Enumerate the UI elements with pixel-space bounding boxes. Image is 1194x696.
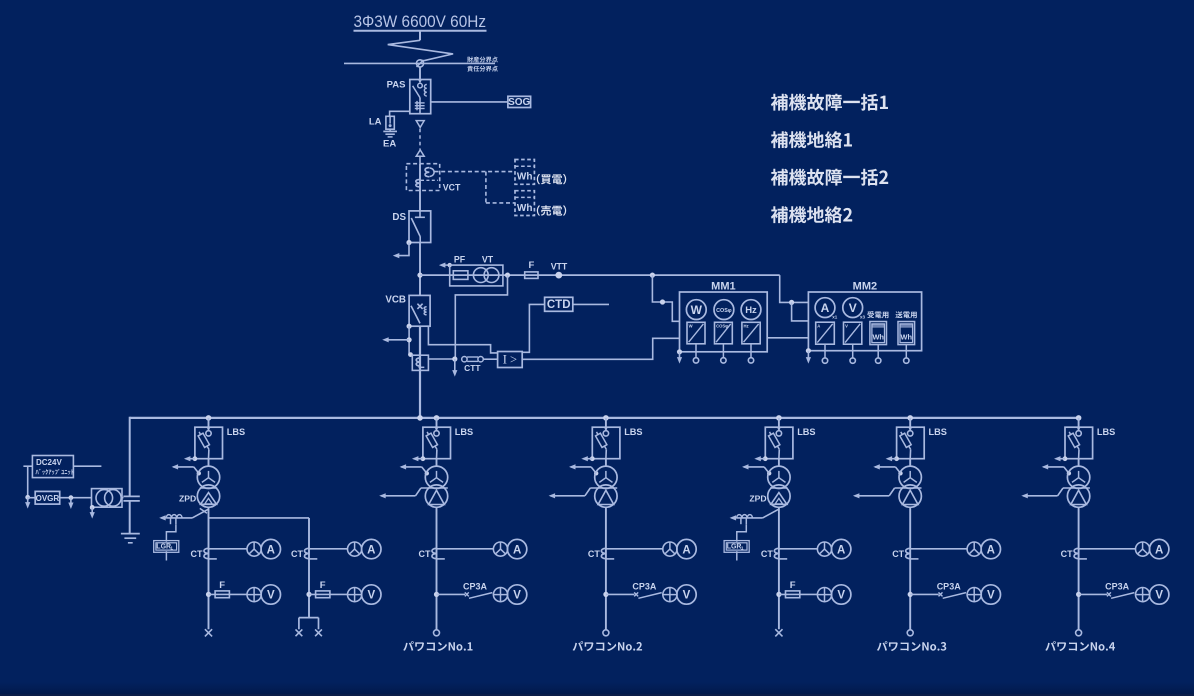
arrow CT earth <box>452 359 457 377</box>
svg-text:LA: LA <box>369 116 382 127</box>
cable head up triangle <box>416 150 424 156</box>
fuse F feeder 4 <box>779 591 818 598</box>
demarcation point circle <box>416 60 423 67</box>
wire feeder drop feeder 3 <box>605 507 607 630</box>
breaker CP3A feeder 5 <box>910 592 966 598</box>
node bus main feed <box>417 415 423 421</box>
meter A <box>815 298 838 320</box>
node bus feeder 6 <box>1076 415 1082 421</box>
wire VCB left drop <box>408 326 410 354</box>
cable head down triangle <box>416 121 424 128</box>
svg-text:CP3A: CP3A <box>937 582 962 592</box>
arrow LBS corner feeder 4 <box>754 456 767 461</box>
switch ammeter selector feeder 6 <box>1136 542 1150 556</box>
meter Hz <box>741 300 761 320</box>
svg-text:A: A <box>267 544 275 556</box>
svg-text:I >: I > <box>503 353 517 367</box>
wire OVGR to aux transformer <box>60 497 92 499</box>
arrow transformer primary feeder 2 <box>400 464 429 475</box>
switch ammeter selector feeder 4 <box>817 542 831 556</box>
wire bus to LBS feeder 4 <box>778 418 780 430</box>
switch voltmeter selector feeder 2 <box>493 588 507 602</box>
switch LBS feeder 4 <box>765 427 793 459</box>
meter V feeder 3 <box>677 585 696 604</box>
connection x mark branch right <box>315 629 322 636</box>
connection x mark feeder 1 <box>205 629 212 636</box>
incoming line zigzag break <box>388 40 453 61</box>
svg-text:MM2: MM2 <box>853 281 877 293</box>
node aux transformer input <box>69 495 74 500</box>
label sodenyou <box>895 311 916 318</box>
label zaisan bunkaiten <box>467 57 498 63</box>
node main CT box corner <box>408 352 413 357</box>
wire MM2 second lead <box>792 302 809 321</box>
svg-text:OVGR: OVGR <box>36 494 60 503</box>
wire LGR stub feeder 1 <box>165 551 167 560</box>
arrow aux earth 2 <box>68 498 73 509</box>
zero phase coil feeder 4 <box>737 515 753 525</box>
disconnect switch DS <box>409 211 431 243</box>
relay LGR1 feeder 1 <box>154 541 179 553</box>
wire LBS to transformer feeder 4 <box>778 459 780 467</box>
meter A feeder 3 <box>677 539 696 558</box>
label hoki koshou ikkatsu 2 <box>771 169 888 186</box>
wire CT to CTT <box>428 358 454 360</box>
svg-text:V: V <box>267 590 275 602</box>
wire ZPD tap to branch feeder 1 <box>209 517 310 519</box>
terminal MM2 Wh1 <box>876 358 881 363</box>
delta symbol feeder 6 <box>1071 490 1087 504</box>
svg-text:CP3A: CP3A <box>463 582 488 592</box>
transformer feeder 6 delta winding <box>1067 485 1089 507</box>
wire DC24V right <box>73 465 101 467</box>
svg-text:A: A <box>367 544 375 556</box>
terminal powcon feeder 2 <box>434 630 440 636</box>
wire transformer tap arrow feeder 3 <box>549 488 618 498</box>
meter A feeder 2 <box>507 539 526 558</box>
svg-text:Hz: Hz <box>744 324 749 329</box>
svg-text:A: A <box>1155 544 1163 556</box>
label powcon No.3 <box>877 641 946 651</box>
wire DS aux arrow <box>393 243 409 259</box>
transformer feeder 2 wye winding <box>425 466 447 488</box>
arrow transformer primary feeder 5 <box>873 464 902 475</box>
dashed lead VCT to Wh meters <box>435 172 516 203</box>
svg-text:CT: CT <box>892 549 904 559</box>
meter V <box>843 298 866 320</box>
transformer feeder 2 delta winding <box>425 485 447 507</box>
arrow transformer primary feeder 1 <box>172 464 201 475</box>
node DS bottom corner <box>406 240 411 245</box>
switch voltmeter selector feeder 1 <box>247 588 261 602</box>
node VT output <box>505 273 510 278</box>
terminal powcon feeder 5 <box>907 630 913 636</box>
svg-text:V: V <box>1155 590 1163 602</box>
arrow MM2 earth <box>806 351 811 364</box>
zero phase coil feeder 1 <box>166 515 182 525</box>
current transformer feeder 4 <box>774 548 779 558</box>
node VCB bottom corner <box>407 324 412 329</box>
current transformer feeder 3 <box>601 548 606 558</box>
switch LBS feeder 3 <box>592 427 620 459</box>
wire VCB to bus <box>419 326 421 418</box>
relay LGR1 feeder 4 <box>724 541 749 553</box>
wire CT to ammeter feeder 5 <box>910 548 967 550</box>
svg-text:1: 1 <box>741 546 744 551</box>
wire feeder 1 branch drop <box>308 518 310 618</box>
svg-text:Wh: Wh <box>517 203 533 214</box>
meter A feeder 1 <box>261 539 280 558</box>
label powcon No.1 <box>403 641 472 651</box>
svg-text:V: V <box>513 590 521 602</box>
node bus feeder 1 <box>206 415 212 421</box>
svg-text:COSφ: COSφ <box>716 308 732 314</box>
wire bus to LBS feeder 5 <box>909 418 911 430</box>
transformer feeder 4 delta winding <box>768 485 790 507</box>
wire VCB aux arrow <box>382 337 409 342</box>
arrow transformer primary feeder 3 <box>569 464 598 475</box>
wire ZPD tap diagonal feeder 1 <box>192 509 208 518</box>
wire transformer tap arrow feeder 6 <box>1021 488 1090 498</box>
fuse F <box>525 272 538 279</box>
svg-text:CT: CT <box>291 549 303 559</box>
wire bus to LBS feeder 3 <box>605 418 607 430</box>
terminal MM1 COSphi <box>721 358 726 363</box>
svg-text:A: A <box>821 301 830 315</box>
title 3phase 3wire 6600V 60Hz <box>354 13 487 31</box>
transducer A <box>816 322 835 344</box>
current transformer CT main <box>412 355 428 370</box>
relay SOG <box>508 96 531 108</box>
label hoki chiraku 2 <box>771 206 852 223</box>
meter A feeder 4 <box>832 539 851 558</box>
meter Wh receive <box>870 322 887 345</box>
arrow LBS corner feeder 5 <box>886 456 899 461</box>
svg-text:LBS: LBS <box>227 427 245 437</box>
wire relay to MM1 <box>522 338 679 359</box>
arrow LBS corner feeder 3 <box>581 456 594 461</box>
wire VTT to MM2 <box>780 275 809 302</box>
label hoki chiraku 1 <box>771 131 852 148</box>
transducer W <box>687 322 705 344</box>
terminal powcon feeder 6 <box>1076 630 1082 636</box>
VCT CT winding symbol <box>416 179 420 187</box>
wire to PAS <box>419 67 421 80</box>
switch ammeter selector feeder 3 <box>663 542 677 556</box>
wire coil to LGR feeder 1 <box>166 524 176 542</box>
wire selector to voltmeter feeder 3 <box>676 594 678 596</box>
wire VCB to overcurrent relay <box>428 326 497 353</box>
node bus feeder 4 <box>776 415 782 421</box>
switch ammeter selector feeder 2 <box>493 542 507 556</box>
wire CT to ammeter feeder 3 <box>606 548 663 550</box>
wire bus to LBS feeder 2 <box>436 418 438 430</box>
transformer feeder 4 wye winding <box>768 466 790 488</box>
current transformer branch <box>304 548 309 558</box>
svg-text:A: A <box>987 544 995 556</box>
arrow at PF VT box <box>439 263 452 268</box>
wire branch CT to ammeter <box>309 548 348 550</box>
svg-text:LGR: LGR <box>727 544 742 551</box>
wire VT output to relay CT line <box>455 275 507 359</box>
svg-text:CT: CT <box>588 549 600 559</box>
wire selector to voltmeter feeder 6 <box>1149 594 1151 596</box>
connection x mark branch left <box>296 629 303 636</box>
wire node to OVGR <box>28 497 36 499</box>
current transformer feeder 2 <box>432 548 437 558</box>
svg-text:x1: x1 <box>832 315 838 320</box>
meter A feeder 6 <box>1150 539 1169 558</box>
wire VTT to MM1 <box>652 275 679 321</box>
svg-text:CP3A: CP3A <box>1105 582 1130 592</box>
arrow aux earth 3 <box>90 507 95 518</box>
svg-text:LBS: LBS <box>1097 427 1115 437</box>
svg-text:PF: PF <box>454 254 466 264</box>
meter Wh sale dashed box <box>515 191 534 216</box>
terminal MM2 Wh2 <box>904 358 909 363</box>
svg-text:CT: CT <box>419 549 431 559</box>
svg-text:V: V <box>367 590 375 602</box>
breaker CP3A feeder 2 <box>437 592 493 598</box>
meter COSphi <box>714 300 734 320</box>
VCT VT winding symbol <box>425 168 429 177</box>
svg-text:Wh: Wh <box>901 333 913 342</box>
switch blade ZPD tap feeder 1 <box>200 508 207 513</box>
delta symbol feeder 2 <box>429 490 445 504</box>
svg-text:VTT: VTT <box>551 261 568 271</box>
arrow MM1 earth <box>677 352 682 364</box>
meter V feeder 4 <box>832 585 851 604</box>
wire PAS to LA <box>390 111 410 116</box>
node MM1 corner <box>677 349 682 354</box>
transducer Hz <box>742 322 760 344</box>
svg-text:CT: CT <box>191 549 203 559</box>
svg-text:CTD: CTD <box>547 299 571 311</box>
wire feeder drop feeder 5 <box>909 507 911 630</box>
transformer aux in box <box>92 489 123 508</box>
wire ZPD tap diagonal feeder 4 <box>762 509 778 518</box>
current transformer feeder 5 <box>906 548 911 558</box>
relay I> overcurrent <box>498 352 523 368</box>
svg-text:W: W <box>689 324 693 329</box>
node main line PF tap <box>417 273 422 278</box>
wire feeder drop feeder 6 <box>1078 507 1080 630</box>
wire PAS to SOG <box>431 101 508 103</box>
svg-text:CP3A: CP3A <box>632 582 657 592</box>
test terminal CTT <box>462 357 498 362</box>
wire selector to voltmeter feeder 5 <box>980 594 982 596</box>
node MM2 corner <box>806 348 811 353</box>
svg-text:LBS: LBS <box>929 427 947 437</box>
wire feeder drop feeder 4 <box>778 507 780 629</box>
svg-text:LGR: LGR <box>156 544 171 551</box>
label kaiden <box>537 174 566 185</box>
node bus feeder 2 <box>434 415 440 421</box>
wire CT to ammeter feeder 2 <box>437 548 494 550</box>
fuse F branch <box>309 591 348 598</box>
svg-text:3Φ3W 6600V 60Hz: 3Φ3W 6600V 60Hz <box>354 13 487 31</box>
power supply DC24V backup unit <box>32 456 73 478</box>
svg-text:Wh: Wh <box>872 333 884 342</box>
wire to VCT <box>419 156 421 163</box>
svg-text:1: 1 <box>170 546 173 551</box>
breaker VCB <box>409 295 430 326</box>
switch LBS feeder 5 <box>897 427 925 459</box>
meter transformer VCT dashed box <box>406 164 439 191</box>
node MM2 feed <box>789 300 794 305</box>
ground EA <box>383 129 397 137</box>
svg-text:VCB: VCB <box>385 294 406 305</box>
svg-text:A: A <box>837 544 845 556</box>
wire CTD output <box>573 303 609 305</box>
svg-text:F: F <box>528 260 534 271</box>
wire ZPD tap feeder 4 <box>737 517 763 519</box>
wire transformer chord feeder 1 <box>200 487 217 489</box>
wire branch fork <box>299 618 319 630</box>
svg-text:F: F <box>219 580 225 591</box>
capacitor aux <box>123 496 139 501</box>
wire relay to CTD <box>522 304 544 352</box>
svg-text:V: V <box>683 590 691 602</box>
svg-text:A: A <box>817 323 820 328</box>
wire through VCT <box>419 164 421 211</box>
delta symbol with ZPD feeder 1 <box>201 493 217 505</box>
node voltmeter tap feeder 4 <box>776 592 781 597</box>
svg-text:VT: VT <box>482 254 494 264</box>
switch LBS feeder 1 <box>195 427 223 459</box>
svg-text:A: A <box>513 544 521 556</box>
wire LBS to transformer feeder 3 <box>605 459 607 467</box>
MM2 terminal leads <box>825 344 906 358</box>
svg-text:V: V <box>845 323 848 328</box>
node bus feeder 5 <box>907 415 913 421</box>
fuse F feeder 1 <box>209 591 248 598</box>
node branch voltmeter tap <box>306 592 311 597</box>
meter V branch <box>362 585 381 604</box>
meter V feeder 2 <box>507 585 526 604</box>
svg-text:V: V <box>987 590 995 602</box>
transformer feeder 1 delta winding <box>197 485 219 507</box>
breaker CP3A feeder 3 <box>606 592 662 598</box>
meter A branch <box>362 539 381 558</box>
ground aux <box>121 534 140 543</box>
node voltmeter tap feeder 1 <box>206 592 211 597</box>
transducer COSphi <box>715 322 733 344</box>
svg-text:Wh: Wh <box>517 172 533 183</box>
wire DC24V left stub <box>23 466 32 497</box>
wire capacitor to ground <box>129 501 131 534</box>
svg-text:CT: CT <box>761 549 773 559</box>
label backup unit katakana <box>36 469 74 475</box>
meter panel MM1 <box>680 292 768 352</box>
switch voltmeter selector feeder 5 <box>967 588 981 602</box>
arrow OVGR input earth <box>25 497 30 508</box>
svg-text:CTT: CTT <box>464 363 481 373</box>
wire transformer tap arrow feeder 2 <box>379 488 448 498</box>
wire bus to LBS feeder 1 <box>208 418 210 430</box>
wire DS to VCB <box>419 243 421 296</box>
wire CT to ammeter feeder 1 <box>209 548 248 550</box>
breaker CP3A feeder 6 <box>1079 592 1135 598</box>
terminal powcon feeder 3 <box>603 630 609 636</box>
switch LBS feeder 6 <box>1065 427 1093 459</box>
node voltmeter tap feeder 6 <box>1076 592 1081 597</box>
transformer feeder 3 wye winding <box>595 466 617 488</box>
svg-text:W: W <box>691 303 703 317</box>
meter Wh purchase dashed box <box>515 160 534 185</box>
delta symbol feeder 3 <box>598 490 614 504</box>
arrester LA <box>386 116 394 129</box>
svg-text:A: A <box>682 544 690 556</box>
transformer feeder 5 wye winding <box>899 466 921 488</box>
transformer feeder 1 wye winding <box>197 466 219 488</box>
svg-text:V: V <box>849 301 857 315</box>
svg-text:LBS: LBS <box>624 427 642 437</box>
wire CT to ammeter feeder 6 <box>1079 548 1136 550</box>
switch branch ammeter selector <box>348 542 362 556</box>
wire from title to zigzag <box>419 31 421 41</box>
svg-text:ZPD: ZPD <box>749 494 766 504</box>
transformer feeder 5 delta winding <box>899 485 921 507</box>
svg-text:Hz: Hz <box>745 305 757 316</box>
switch voltmeter selector feeder 4 <box>817 588 831 602</box>
node VTT <box>555 272 562 279</box>
svg-text:F: F <box>320 580 326 591</box>
meter V feeder 5 <box>981 585 1000 604</box>
svg-text:COSφ: COSφ <box>716 324 728 329</box>
delta symbol feeder 5 <box>902 490 918 504</box>
terminal MM2 V <box>850 358 855 363</box>
meter W <box>686 300 706 320</box>
relay OVGR <box>35 491 60 504</box>
node aux transformer corner <box>90 505 95 510</box>
transducer CTD <box>545 297 573 311</box>
switch ammeter selector feeder 1 <box>247 542 261 556</box>
meter V feeder 6 <box>1150 585 1169 604</box>
svg-text:PAS: PAS <box>387 79 406 90</box>
wire transformer tap arrow feeder 5 <box>853 488 922 498</box>
wire LBS to transformer feeder 2 <box>436 459 438 467</box>
transformer feeder 6 wye winding <box>1067 466 1089 488</box>
arrow LBS corner feeder 2 <box>412 456 425 461</box>
arrow ZPD feeder 4 <box>730 515 737 520</box>
arrow transformer primary feeder 6 <box>1042 464 1071 475</box>
meter Wh send <box>898 322 915 345</box>
wire LBS to transformer feeder 5 <box>909 459 911 467</box>
arrow transformer primary feeder 4 <box>742 464 771 475</box>
node VTT run MM1 tap <box>650 273 655 278</box>
wire LGR stub feeder 4 <box>736 551 738 560</box>
wire MM1 to MM2 <box>767 337 808 339</box>
svg-text:CT: CT <box>1061 549 1073 559</box>
switch voltmeter selector feeder 3 <box>663 588 677 602</box>
wire LBS to transformer feeder 6 <box>1078 459 1080 467</box>
svg-text:DS: DS <box>392 212 406 223</box>
transducer V <box>844 322 862 344</box>
svg-text:V: V <box>837 590 845 602</box>
svg-text:F: F <box>790 580 796 591</box>
switch voltmeter selector feeder 6 <box>1136 588 1150 602</box>
svg-text:EA: EA <box>383 139 396 150</box>
node CTT tap <box>452 356 457 361</box>
meter V feeder 1 <box>261 585 280 604</box>
meter A feeder 5 <box>981 539 1000 558</box>
wire feeder drop feeder 2 <box>436 507 438 630</box>
terminal MM2 A <box>822 358 827 363</box>
wire bus left drop <box>129 417 131 497</box>
terminal MM1 Hz <box>748 358 753 363</box>
svg-text:ZPD: ZPD <box>179 494 196 504</box>
